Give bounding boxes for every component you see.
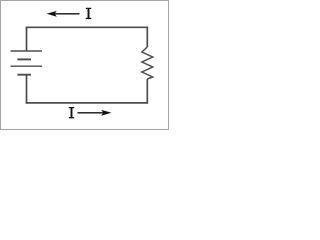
label I (top current) <box>86 8 91 19</box>
battery B1 plate long (positive, top) <box>11 50 43 52</box>
battery B1 plate short (negative, bottom terminal) <box>17 74 31 76</box>
resistor R (zigzag) <box>142 47 153 79</box>
current arrow bottom (pointing right) <box>78 110 112 116</box>
label I (bottom current) <box>69 107 74 118</box>
wire right lower (resistor to bottom wire) <box>146 79 148 104</box>
battery B1 plate short (negative) <box>17 58 31 60</box>
wire bottom (return path) <box>26 102 148 104</box>
battery B1 plate long (positive, second cell) <box>11 65 43 67</box>
wire left upper (battery + terminal to top wire) <box>26 27 28 52</box>
wire right upper (top wire to resistor) <box>146 27 148 48</box>
wire top (node between battery + and resistor top) <box>26 26 148 28</box>
current arrow top (pointing left) <box>47 11 80 17</box>
wire left lower (battery - terminal to bottom wire) <box>26 75 28 104</box>
